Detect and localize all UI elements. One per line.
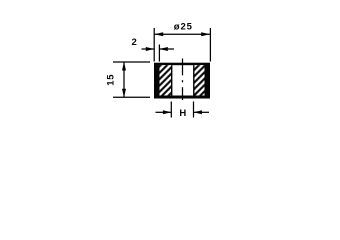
part body outer (tube cross-section) (154, 63, 210, 99)
extension line 15 bottom (113, 96, 150, 98)
dimension 15 line (123, 62, 125, 97)
dimension ø25 line (155, 33, 210, 35)
part inner white area (160, 65, 205, 95)
svg-text:15: 15 (106, 74, 117, 86)
extension line right ø25 (209, 28, 211, 62)
hatch left wall (160, 65, 172, 95)
arrow right of ø25 (201, 32, 210, 36)
dimension 2 right tail (160, 48, 175, 50)
dimension H right tail (194, 111, 209, 113)
hole left edge line (171, 65, 172, 95)
arrow left of ø25 (154, 32, 163, 36)
extension line H left (170, 102, 172, 118)
arrow left of H (points right) (163, 110, 171, 114)
dimension H left tail (156, 111, 172, 113)
arrow right of H (points left) (194, 110, 202, 114)
extension line 2 (right) (158, 45, 160, 62)
extension line left (shared ø25 / 2) (153, 28, 155, 62)
hole right edge line (193, 65, 194, 95)
arrow up of 15 (122, 62, 126, 71)
extension line H right (193, 102, 195, 118)
extension line 15 top (113, 61, 150, 63)
hatch right wall (194, 65, 205, 95)
arrow right of 2 (points left) (159, 47, 167, 51)
dimension 2 left tail (142, 48, 155, 50)
svg-text:H: H (179, 108, 186, 119)
arrow left of 2 (points right) (146, 47, 154, 51)
arrow down of 15 (122, 89, 126, 98)
svg-text:2: 2 (132, 37, 137, 48)
svg-text:ø25: ø25 (174, 21, 193, 32)
centerline (dash-dot) (182, 59, 184, 101)
